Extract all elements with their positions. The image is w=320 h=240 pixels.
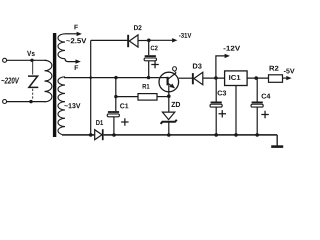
- wire middle rail: [64, 77, 159, 79]
- wire bottom-left: [7, 101, 46, 103]
- wire R2 output: [283, 77, 288, 79]
- wire top-left: [7, 59, 47, 61]
- arrow filament top F: [77, 32, 82, 36]
- label ~2.5V: [66, 38, 86, 43]
- label Q: [172, 66, 177, 72]
- label D2: [134, 25, 142, 30]
- capacitor C1: [107, 112, 119, 135]
- wire vertical winding tap to D1: [90, 40, 92, 134]
- label ZD: [171, 102, 180, 107]
- label C1: [120, 103, 128, 108]
- node C1 top junction: [114, 76, 117, 79]
- label C4: [262, 94, 271, 99]
- label Vs: [27, 51, 35, 56]
- node rail C3: [214, 133, 218, 137]
- transformer T1 core: [53, 33, 56, 137]
- node -31V junction: [147, 39, 151, 43]
- label -31V: [179, 33, 191, 38]
- label IC1: [229, 75, 240, 80]
- zener diode ZD: [161, 96, 177, 135]
- label R2: [270, 66, 279, 71]
- node -12V C3 junction: [214, 76, 218, 80]
- node rail C4: [255, 133, 259, 137]
- capacitor C2: [144, 42, 156, 77]
- diode D1: [95, 129, 104, 140]
- plus C1: [121, 118, 129, 125]
- node Vs junction: [30, 59, 33, 62]
- terminal bottom-left: [3, 100, 7, 104]
- node D1 anode junction: [89, 133, 93, 137]
- label -5V: [284, 69, 295, 74]
- terminal top-left: [3, 58, 7, 62]
- wire IC1 ground lead: [235, 86, 237, 136]
- label -12V: [224, 46, 241, 51]
- transformer T1 secondary 13V winding: [58, 77, 65, 135]
- label F bottom: [75, 65, 78, 70]
- label C3: [218, 91, 227, 96]
- node Q emitter junction: [167, 94, 171, 98]
- wire filament bottom lead: [65, 59, 76, 62]
- node R1 tee junction: [114, 95, 117, 98]
- surge arrester Z lead bottom: [32, 89, 34, 100]
- resistor R1: [138, 94, 157, 101]
- wire IC1 output: [247, 77, 268, 79]
- wire top rail to D2: [91, 39, 128, 41]
- ground: [271, 135, 283, 147]
- resistor R2: [269, 75, 283, 83]
- node C4 junction: [254, 76, 258, 80]
- wire C1 branch upper: [115, 78, 117, 111]
- node rail C1: [112, 133, 116, 137]
- capacitor C4: [251, 79, 263, 135]
- node rail IC1: [234, 133, 238, 137]
- capacitor C3: [210, 79, 222, 135]
- node C2 junction: [147, 76, 150, 79]
- diode D3: [192, 72, 225, 84]
- label ~13V: [64, 103, 80, 108]
- label ~220V: [1, 77, 19, 83]
- label C2: [151, 46, 158, 51]
- surge arrester Z lead top: [32, 62, 34, 75]
- plus C4: [261, 111, 269, 118]
- arrow -12V: [225, 54, 230, 58]
- wire R1 right lead: [157, 96, 168, 98]
- arrow -31V: [172, 38, 177, 42]
- IC U1 regulator IC1: [225, 71, 248, 86]
- surge arrester Z: [28, 76, 38, 87]
- arrow filament bottom F: [76, 59, 81, 63]
- wire bottom rail left of D1: [62, 134, 95, 136]
- label D1: [96, 120, 103, 125]
- wire filament top lead: [65, 33, 77, 35]
- diode D2: [127, 35, 147, 47]
- wire R1 left lead: [116, 96, 138, 98]
- label R1: [143, 84, 150, 89]
- wire to -31V arrow: [151, 39, 173, 41]
- wire bottom rail: [104, 134, 278, 136]
- arrow -5V: [286, 76, 291, 80]
- transformer T1 primary winding: [45, 60, 52, 102]
- transistor Q: [159, 72, 179, 96]
- wire -12V branch: [216, 56, 226, 78]
- plus C3: [219, 110, 227, 117]
- node cross junction: [89, 76, 92, 79]
- wire Q to D3: [179, 77, 192, 79]
- label F top: [74, 25, 77, 30]
- transformer T1 filament secondary 2.5V winding: [58, 34, 65, 59]
- label D3: [193, 63, 202, 68]
- node rail ZD: [167, 133, 171, 137]
- plus C2: [151, 61, 159, 68]
- node bottom-left junction: [29, 100, 32, 103]
